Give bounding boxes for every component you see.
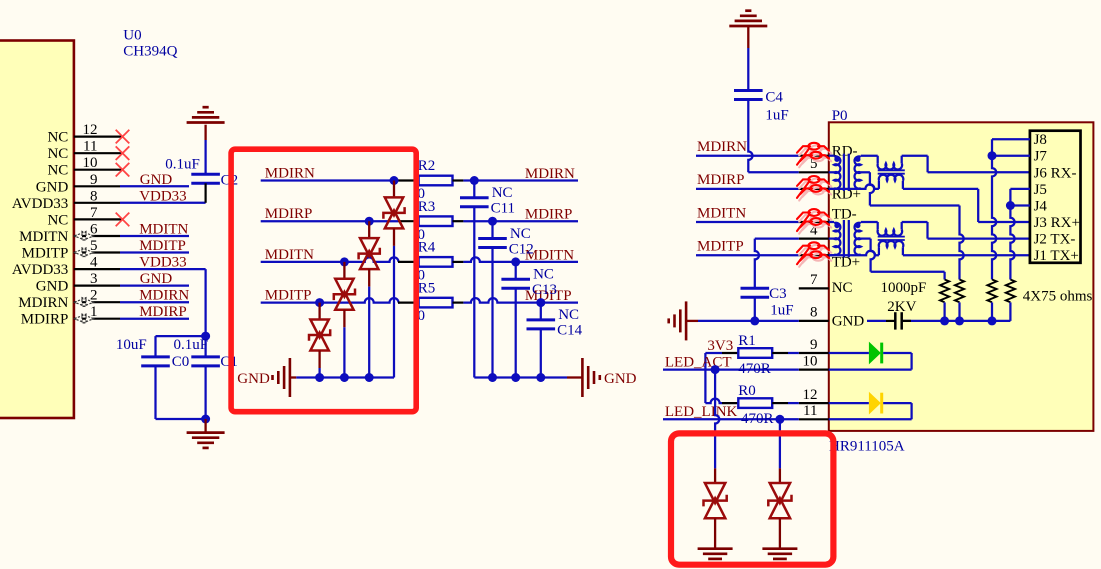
resistor R1 value 470R (722, 333, 799, 358)
svg-text:3V3: 3V3 (707, 338, 733, 354)
P0 pin 4 (799, 222, 829, 238)
svg-text:J2 TX-: J2 TX- (1034, 232, 1076, 248)
wire C0 branch (156, 336, 206, 357)
svg-text:J3 RX+: J3 RX+ (1034, 215, 1080, 231)
net label MDIRN (U0 pin 2) (120, 288, 189, 304)
svg-text:1uF: 1uF (770, 302, 793, 318)
resistor 75ohm #1 (TX ct) (940, 272, 949, 321)
wire C0/C1 bottom rail (156, 366, 206, 419)
wire NC-caps ground rail (474, 376, 567, 378)
TVS diode on MDITP (309, 303, 330, 378)
wire C2 top (204, 140, 206, 174)
svg-text:470R: 470R (738, 361, 771, 377)
capacitor C1 (174, 336, 238, 370)
svg-text:10: 10 (803, 353, 818, 369)
svg-text:MDIRP: MDIRP (697, 172, 745, 188)
svg-text:2KV: 2KV (887, 299, 916, 315)
resistor R3 value 0 (398, 199, 463, 243)
node MDIRN cap junction (470, 176, 479, 185)
ground (earth) above C4 (729, 11, 767, 48)
transformer T1 (RX) in P0 (829, 154, 861, 191)
capacitor C3 value 1uF (741, 286, 794, 319)
TVS diode on LED_ACT (704, 370, 727, 548)
wire TVS ground rail (296, 376, 394, 378)
node J4 junction (1006, 201, 1015, 210)
svg-text:HR911105A: HR911105A (829, 439, 905, 455)
common-mode choke (TX) in P0 (878, 222, 905, 255)
resistor R0 value 470R (722, 383, 799, 408)
marker red cross at P0 pin y=155.7 (797, 143, 831, 168)
svg-text:MDIRN: MDIRN (265, 166, 315, 182)
svg-text:J5: J5 (1034, 182, 1047, 198)
wire C2 bottom to pin8 row (205, 183, 207, 203)
svg-text:7: 7 (810, 272, 818, 288)
svg-text:GND: GND (237, 371, 270, 387)
node rail r1 (940, 316, 949, 325)
svg-text:8: 8 (810, 305, 818, 321)
wire TD+ row to choke bottom (hop at ct vertical) (829, 251, 879, 256)
node MDIRN TVS junction (390, 176, 399, 185)
wire termination rail (902, 320, 1011, 322)
capacitor C2 (165, 156, 238, 188)
LED green (ACT) in P0 (829, 342, 912, 370)
svg-text:R1: R1 (738, 333, 756, 349)
svg-text:GND: GND (604, 371, 637, 387)
wire RX secondary top to choke (861, 155, 878, 157)
svg-text:J7: J7 (1034, 149, 1048, 165)
TVS diode on MDIRP (359, 221, 380, 377)
svg-text:C3: C3 (769, 286, 787, 302)
svg-text:P0: P0 (832, 108, 848, 124)
wire TCT vertical to C3 (hop over MDITP) (755, 239, 759, 289)
wire VDD33 vertical to C0/C1 (204, 269, 206, 336)
node GND/C3 junction (750, 316, 759, 325)
P0 pin 6 (799, 155, 829, 157)
resistor R5 value 0 (398, 280, 463, 324)
U0 pin 11 (NC) (47, 139, 129, 163)
svg-text:MDITP: MDITP (697, 239, 744, 255)
P0 pin 9 (799, 337, 829, 353)
wire C4 top (747, 48, 749, 91)
wire C4 to pin5 (RCT) with hop over MDIRN (748, 100, 799, 173)
net label MDITN (U0 pin 6) (120, 222, 189, 238)
svg-text:MDITN: MDITN (19, 229, 68, 245)
svg-text:MDIRN: MDIRN (697, 139, 747, 155)
resistor R4 value 0 (398, 240, 463, 284)
wire GND to pin 8 (698, 320, 799, 322)
svg-text:MDITN: MDITN (697, 205, 746, 221)
node MDIRP cap junction (488, 217, 497, 226)
wire pin4 (TCT) row (755, 237, 799, 239)
svg-text:CH394Q: CH394Q (123, 43, 177, 59)
net label GND (U0 pin 3) (120, 271, 189, 287)
power port GND (left of TVS rail) (237, 358, 296, 397)
P0 pin 10 (799, 353, 829, 369)
net label MDIRP (U0 pin 1) (120, 304, 189, 320)
wire RX secondary center tap (861, 172, 960, 205)
TVS diode on MDIRN (383, 181, 404, 378)
svg-text:NC: NC (492, 185, 513, 201)
svg-text:J8: J8 (1034, 132, 1047, 148)
svg-text:MDITN: MDITN (265, 247, 314, 263)
ground (earth) above C2 (187, 107, 225, 140)
svg-text:1uF: 1uF (765, 108, 788, 124)
marker red cross at P0 pin y=255.2 (797, 242, 831, 266)
wire MDITN right segment (463, 257, 578, 262)
svg-text:C11: C11 (491, 201, 515, 217)
svg-text:4X75 ohms: 4X75 ohms (1023, 288, 1093, 304)
wire MDIRN to P0 (696, 155, 799, 157)
svg-text:R2: R2 (418, 158, 436, 174)
U0 pin 10 (NC) (47, 155, 129, 179)
svg-text:TD+: TD+ (832, 254, 860, 270)
svg-text:GND: GND (140, 172, 173, 188)
node MDITN cap junction (511, 257, 520, 266)
U0 pin 2 (MDIRN) (18, 288, 120, 312)
svg-text:8: 8 (90, 188, 98, 204)
wire J8 (992, 138, 1030, 140)
node rail junction MDIRP (365, 373, 374, 382)
U0 pin 1 (MDIRP) (21, 304, 120, 328)
node MDIRP TVS junction (365, 217, 374, 226)
resistor 75ohm #3 (J8/J7) (987, 139, 996, 321)
wire MDITN to P0 (696, 221, 799, 223)
capacitor C14 (NC) (527, 303, 583, 378)
node rail junction C12 (488, 373, 497, 382)
node LED_LINK junction (775, 415, 784, 424)
svg-text:0.1uF: 0.1uF (165, 156, 200, 172)
net label GND (U0 pin 9) (120, 172, 189, 188)
svg-text:11: 11 (803, 403, 817, 419)
U0 pin 12 (NC) (47, 122, 129, 146)
node LED_ACT junction (711, 365, 720, 374)
wire TX choke top out to J2 (902, 222, 1030, 239)
marker red cross at P0 pin y=222.0 (797, 209, 831, 234)
svg-text:470R: 470R (741, 411, 774, 427)
svg-text:9: 9 (810, 337, 818, 353)
capacitor 1000pF 2KV (867, 280, 926, 330)
highlight box (middle TVS area) (231, 149, 416, 412)
marker red cross at P0 pin y=188.9 (797, 176, 831, 201)
svg-text:NC: NC (533, 267, 554, 283)
wire C3 bottom (754, 297, 756, 321)
svg-text:MDIRN: MDIRN (18, 295, 68, 311)
svg-text:LED_ACT: LED_ACT (665, 354, 732, 370)
svg-text:NC: NC (832, 280, 853, 296)
U0 pin 3 (GND) (36, 271, 120, 295)
highlight box (LED TVS area) (671, 433, 833, 564)
node MDITP TVS junction (315, 298, 324, 307)
wire J4 (1010, 204, 1030, 206)
U0 pin 4 (AVDD33) (12, 255, 120, 279)
node rail junction MDITP (315, 373, 324, 382)
svg-text:4: 4 (90, 255, 98, 271)
svg-text:MDIRP: MDIRP (525, 207, 573, 223)
svg-text:J4: J4 (1034, 199, 1048, 215)
svg-text:VDD33: VDD33 (139, 255, 187, 271)
svg-text:C4: C4 (765, 90, 783, 106)
svg-text:7: 7 (90, 205, 98, 221)
capacitor C4 value 1uF (734, 90, 789, 124)
svg-text:MDIRP: MDIRP (139, 304, 187, 320)
node rail junction C13 (511, 373, 520, 382)
svg-text:C0: C0 (172, 354, 190, 370)
node C0/C1 bottom junction (201, 415, 210, 424)
wire MDIRP right segment (463, 220, 578, 222)
net label VDD33 (U0 pin 8) wire to C2 (120, 188, 206, 204)
wire MDITP right segment (463, 298, 578, 303)
svg-text:GND: GND (832, 313, 865, 329)
svg-text:TD-: TD- (832, 206, 857, 222)
wire LED_LINK (663, 418, 799, 420)
wire TX choke bottom out to J1 (903, 254, 1030, 256)
svg-text:MDITP: MDITP (139, 238, 186, 254)
magnetics P0 body (829, 122, 1094, 431)
svg-text:NC: NC (47, 146, 68, 162)
P0 pin 2 (799, 221, 829, 223)
svg-text:MDITP: MDITP (22, 246, 69, 262)
chip U0 body (0, 41, 74, 419)
U0 pin 7 (NC) (47, 205, 129, 229)
svg-text:GND: GND (36, 179, 69, 195)
svg-text:NC: NC (558, 307, 579, 323)
svg-text:VDD33: VDD33 (139, 188, 187, 204)
LED yellow (LINK) in P0 (829, 392, 912, 420)
node rail r2 (955, 316, 964, 325)
wire MDIRN (row R2) left segment (261, 179, 398, 181)
capacitor C12 (NC) (478, 221, 534, 377)
U0 pin 8 (AVDD33) (12, 188, 120, 212)
wire RX choke top out to J6 (902, 156, 1030, 173)
wire MDITP to P0 (696, 254, 799, 256)
wire MDITP (row R5) left segment (261, 298, 399, 303)
P0 pin 5 (799, 156, 829, 172)
svg-text:R3: R3 (418, 199, 436, 215)
svg-text:GND: GND (140, 271, 173, 287)
resistor 75ohm #4 (J5/J4) (1006, 189, 1015, 321)
wire MDIRP to P0 (696, 188, 799, 190)
svg-text:C14: C14 (557, 323, 583, 339)
P0 pin 11 (799, 403, 829, 419)
svg-text:3: 3 (90, 271, 98, 287)
wire RX choke bottom out to J3 (903, 189, 1030, 222)
wire MDIRN right segment (463, 179, 578, 181)
svg-text:NC: NC (510, 226, 531, 242)
capacitor C13 (NC) (501, 262, 557, 378)
svg-text:MDIRN: MDIRN (139, 288, 189, 304)
wire TX secondary center tap (861, 239, 945, 272)
power port GND (P0 pin 8) (669, 301, 698, 340)
connector J1-J8 box (1030, 131, 1081, 263)
TVS diode on MDITN (334, 262, 355, 378)
resistor 75ohm #2 (RX ct) (955, 206, 964, 321)
power net 3V3 (705, 338, 733, 403)
svg-text:MDITN: MDITN (139, 222, 188, 238)
U0 pin 9 (GND) (36, 172, 120, 196)
wire LED_ACT (663, 368, 799, 370)
ground (earth) below C0/C1 (187, 419, 225, 448)
P0 pin 1 (799, 254, 829, 256)
wire J7 (992, 155, 1030, 157)
svg-text:J6 RX-: J6 RX- (1034, 165, 1077, 181)
svg-text:NC: NC (47, 212, 68, 228)
svg-text:MDIRN: MDIRN (525, 166, 575, 182)
wire MDITN (row R4) left segment (261, 257, 399, 262)
wire J5 (1010, 188, 1030, 190)
svg-text:1000pF: 1000pF (881, 280, 927, 296)
wire TX secondary top to choke (861, 221, 878, 223)
transformer T2 (TX) in P0 (829, 220, 861, 257)
resistor R2 value 0 (398, 158, 463, 202)
svg-text:GND: GND (36, 279, 69, 295)
capacitor C11 (NC) (460, 181, 515, 378)
node rail junction MDITN (340, 373, 349, 382)
node J7 junction (988, 151, 997, 160)
wire MDIRP (row R3) left segment (261, 220, 398, 222)
svg-text:9: 9 (90, 172, 98, 188)
P0 pin 8 (799, 305, 829, 321)
ground (earth) below LED_LINK TVS (762, 549, 797, 559)
capacitor C0 (116, 337, 189, 370)
svg-text:J1 TX+: J1 TX+ (1034, 248, 1079, 264)
svg-text:0.1uF: 0.1uF (174, 337, 209, 353)
svg-text:MDITP: MDITP (265, 288, 312, 304)
svg-text:NC: NC (47, 163, 68, 179)
common-mode choke (RX) in P0 (878, 156, 905, 189)
svg-text:R0: R0 (738, 383, 756, 399)
node rail r3 (988, 316, 997, 325)
U0 pin 6 (MDITN) (19, 222, 120, 246)
svg-text:AVDD33: AVDD33 (12, 196, 68, 212)
svg-text:12: 12 (803, 387, 818, 403)
svg-text:NC: NC (47, 130, 68, 146)
svg-text:10: 10 (83, 155, 98, 171)
P0 pin 3 (799, 188, 829, 190)
P0 pin 12 (799, 387, 829, 403)
node rail junction C14 (536, 373, 545, 382)
svg-text:MDIRP: MDIRP (21, 312, 69, 328)
svg-text:R4: R4 (418, 240, 436, 256)
net label VDD33 (U0 pin 4) (120, 255, 206, 271)
power port GND (right of NC-cap rail) (567, 358, 637, 397)
svg-text:U0: U0 (123, 28, 141, 44)
svg-text:AVDD33: AVDD33 (12, 262, 68, 278)
TVS diode on LED_LINK (768, 419, 791, 547)
U0 pin 5 (MDITP) (22, 238, 120, 262)
svg-text:LED_LINK: LED_LINK (665, 404, 738, 420)
svg-text:MDIRP: MDIRP (265, 206, 313, 222)
ground (earth) below LED_ACT TVS (698, 549, 733, 559)
svg-text:10uF: 10uF (116, 337, 147, 353)
net label MDITP (U0 pin 5) (120, 238, 189, 254)
svg-text:R5: R5 (418, 280, 436, 296)
wire RD+ row to choke bottom (hop at ct vertical) (829, 184, 879, 189)
node MDITN TVS junction (340, 257, 349, 266)
svg-text:12: 12 (83, 122, 98, 138)
svg-text:C12: C12 (509, 241, 534, 257)
node MDITP cap junction (536, 298, 545, 307)
svg-text:C13: C13 (532, 282, 557, 298)
node VDD33/C0/C1 top junction (201, 332, 210, 341)
svg-text:11: 11 (83, 139, 97, 155)
P0 pin 7 (799, 272, 829, 288)
